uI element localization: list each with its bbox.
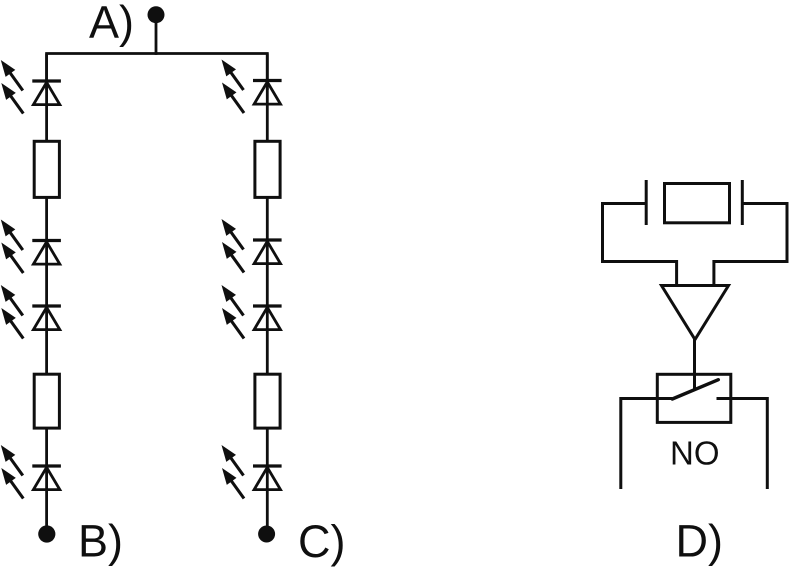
svg-text:B): B) [78,516,123,567]
svg-text:A): A) [89,0,134,48]
svg-text:NO: NO [670,435,720,472]
svg-text:D): D) [676,516,723,567]
svg-text:C): C) [298,516,345,567]
